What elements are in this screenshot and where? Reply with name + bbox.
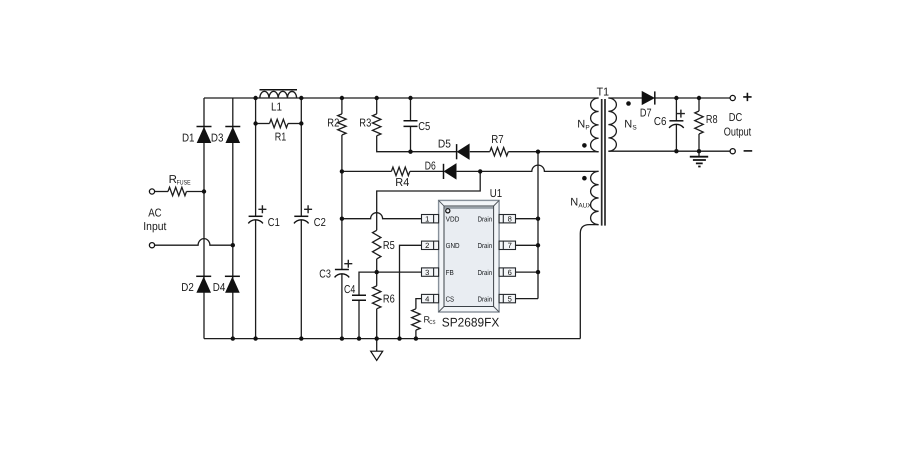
wire GND pin to ground rail (400, 245, 422, 338)
wire C6 bottom lead (675, 125, 677, 152)
wire C1 branch lower (255, 220, 257, 339)
svg-text:C3: C3 (319, 268, 331, 280)
IC U1 body inner face (444, 206, 494, 307)
wire C2 branch lower (300, 220, 302, 339)
junction node (480.2,171.4) (478, 169, 482, 173)
wire D6 node down and over to R5 top (377, 171, 481, 230)
pin 2 box (422, 241, 439, 250)
phase dot NP (582, 143, 587, 148)
wire pin8 lead (516, 218, 539, 220)
pin 5 box (499, 294, 515, 303)
resistor R5 (373, 230, 381, 259)
svg-text:2: 2 (425, 241, 429, 250)
wire NAUX return to ground rail (580, 225, 598, 339)
wire C5 top lead (410, 98, 412, 121)
svg-text:R1: R1 (275, 132, 287, 144)
svg-text:GND: GND (446, 241, 460, 250)
wire R2/C3 branch middle (341, 135, 343, 270)
wire VDD node to R4 (342, 170, 392, 172)
diode D3 (225, 127, 240, 143)
wire pin6 lead (516, 271, 539, 273)
capacitor C1 plates (248, 216, 263, 223)
svg-text:Drain: Drain (478, 241, 493, 250)
svg-text:FB: FB (446, 268, 454, 277)
svg-text:R8: R8 (706, 114, 718, 126)
output minus sign (744, 150, 753, 152)
junction node (538,272.1) (536, 270, 540, 274)
ground symbol (earth ground at output) (690, 151, 708, 166)
wire pin7 lead (516, 244, 539, 246)
wire R2/C3 branch upper (341, 98, 343, 114)
DC output terminal minus (730, 149, 735, 154)
wire R7 to drain node (508, 151, 538, 153)
capacitor C2 polarity plus (304, 205, 312, 213)
svg-text:R5: R5 (383, 240, 395, 252)
junction node (699,151.2) (697, 149, 701, 153)
svg-text:D3: D3 (211, 132, 224, 144)
junction node (255.6,123.5) (253, 121, 257, 125)
svg-text:T1: T1 (597, 86, 609, 98)
svg-text:Drain: Drain (478, 294, 493, 303)
svg-text:C2: C2 (314, 217, 326, 229)
svg-text:Output: Output (724, 126, 752, 138)
wire drain node to NP bottom (538, 151, 599, 153)
wire R3 top lead (376, 98, 378, 114)
AC input terminal bottom (149, 243, 154, 248)
wire R5 to R6 through FB junction (376, 259, 378, 286)
op IC U1 body outer (439, 200, 500, 312)
wire bottom ground rail (204, 338, 580, 340)
junction node (301.3,123.5) (299, 121, 303, 125)
svg-text:R7: R7 (491, 134, 503, 146)
transformer T1 core (602, 99, 605, 226)
junction node (415.9,338.6) (414, 336, 418, 340)
wire RCS bottom lead (415, 330, 417, 339)
svg-text:D1: D1 (182, 132, 195, 144)
IC U1 inner top shade (445, 207, 493, 209)
wire FB line to R5/R6 junction and C4 (359, 272, 422, 295)
wire R3 bottom to snubber line (377, 136, 411, 152)
IC U1 bevel diagonals (439, 200, 500, 312)
wire C2 branch upper (300, 98, 302, 216)
junction node (301.3,98) (299, 96, 303, 100)
transformer T1 auxiliary winding NAUX (591, 171, 599, 224)
wire VDD line with hop over R5 wire (342, 213, 422, 219)
capacitor C3 plates (335, 270, 350, 278)
svg-text:C5: C5 (418, 121, 430, 133)
wire C4 bottom lead (358, 300, 360, 338)
phase dot NS (626, 101, 631, 106)
diode D7 (642, 91, 655, 104)
capacitor C5 plates (404, 121, 418, 127)
resistor RFUSE (168, 187, 186, 195)
junction node (301.3,338.6) (299, 336, 303, 340)
svg-text:U1: U1 (490, 188, 502, 200)
junction node (676.4,151.2) (674, 149, 678, 153)
junction node (676.4,98) (674, 96, 678, 100)
svg-text:7: 7 (508, 241, 512, 250)
IC U1 pin-1 indicator circle (446, 209, 450, 213)
capacitor C1 polarity plus (258, 205, 266, 213)
junction node (538,218.7) (536, 217, 540, 221)
wire D7 to plus terminal (655, 97, 730, 99)
svg-text:R4: R4 (395, 177, 410, 189)
inductor L1 core bar (260, 89, 298, 91)
svg-text:D6: D6 (425, 160, 436, 172)
wire pin5 lead (516, 298, 539, 300)
ground symbol (signal ground triangle) (371, 339, 383, 361)
transformer T1 secondary winding NS (608, 98, 616, 151)
wire right bridge leg (D3/D4) (232, 98, 234, 339)
resistor RCS (412, 309, 420, 330)
wire fuse to bridge node (187, 191, 205, 193)
svg-text:R2: R2 (327, 117, 339, 129)
junction node (341.9,338.6) (340, 336, 344, 340)
pin 3 box (422, 268, 439, 277)
wire AC neutral with hop (155, 239, 233, 246)
wire D6 to node, hop over drain bus, to NAUX top (457, 165, 599, 171)
wire CS pin to RCS (416, 299, 422, 309)
junction node (399.5,338.6) (397, 336, 401, 340)
wire drain bus vertical (537, 152, 539, 299)
diode D5 (457, 144, 470, 159)
resistor R1 (270, 119, 288, 127)
svg-text:CS: CS (446, 294, 455, 303)
junction node (699,98) (697, 96, 701, 100)
svg-text:8: 8 (508, 215, 512, 224)
svg-text:6: 6 (508, 268, 512, 277)
pin 1 box (422, 215, 439, 224)
svg-text:Input: Input (143, 221, 167, 233)
svg-text:R3: R3 (359, 117, 371, 129)
wire R1 left lead (256, 123, 270, 125)
AC input terminal top (149, 189, 154, 194)
junction node (410.5,98) (408, 96, 412, 100)
svg-text:DC: DC (729, 112, 743, 124)
wire AC line to fuse (155, 191, 168, 193)
resistor R8 (695, 111, 703, 134)
output plus sign (743, 93, 751, 101)
junction node (376.7,338.6) (375, 336, 379, 340)
wire R6 bottom lead (376, 309, 378, 339)
wire C6 top lead (675, 98, 677, 121)
svg-text:VDD: VDD (446, 215, 460, 224)
svg-text:C6: C6 (654, 116, 667, 128)
svg-text:D2: D2 (181, 282, 194, 294)
wire R2/C3 branch lower (341, 274, 343, 339)
svg-text:SP2689FX: SP2689FX (442, 315, 500, 329)
wire R8 top lead (698, 98, 700, 111)
svg-text:D7: D7 (640, 107, 652, 119)
diode D1 (197, 127, 212, 143)
junction node (410.5,151.7) (408, 150, 412, 154)
junction node (341.9,98) (340, 96, 344, 100)
wire D5 to R7 (470, 151, 490, 153)
svg-text:R6: R6 (383, 294, 395, 306)
junction node (376.7,98) (375, 96, 379, 100)
wire NS bottom to minus terminal (608, 150, 730, 152)
resistor R4 (391, 167, 409, 175)
capacitor C4 plates (352, 295, 366, 300)
svg-text:C4: C4 (344, 284, 356, 296)
junction node (376.7,272.1) (375, 270, 379, 274)
junction node (341.9,218.7) (340, 217, 344, 221)
junction node (538,245.3) (536, 243, 540, 247)
svg-text:Drain: Drain (478, 268, 493, 277)
junction node (232.8,338.6) (231, 336, 235, 340)
resistor R3 (373, 114, 381, 136)
wire C1 branch upper (255, 98, 257, 216)
capacitor C6 polarity plus (677, 110, 685, 118)
pin 8 box (499, 215, 515, 224)
junction node (255.6,338.6) (253, 336, 257, 340)
svg-text:5: 5 (508, 294, 512, 303)
pin 6 box (499, 268, 515, 277)
wire R8 bottom lead (698, 134, 700, 151)
diode D4 (225, 276, 240, 292)
svg-text:1: 1 (425, 215, 429, 224)
capacitor C6 plates (669, 121, 684, 128)
wire top DC bus rail (204, 97, 599, 99)
wire snubber line C5 to D5 (411, 151, 457, 153)
svg-text:AC: AC (148, 208, 161, 220)
svg-text:3: 3 (425, 268, 429, 277)
resistor R7 (490, 148, 508, 156)
wire R4 to D6 (410, 170, 444, 172)
svg-text:4: 4 (425, 294, 429, 303)
junction node (538,151.7) (536, 150, 540, 154)
resistor R2 (338, 114, 346, 135)
pin 4 box (422, 294, 439, 303)
svg-text:C1: C1 (268, 217, 280, 229)
resistor R6 (373, 286, 381, 309)
junction node (359,338.6) (357, 336, 361, 340)
svg-text:L1: L1 (271, 101, 282, 113)
wire NS top to D7 (608, 97, 642, 99)
capacitor C2 plates (294, 216, 309, 223)
inductor L1 winding (260, 91, 297, 98)
svg-text:D5: D5 (438, 139, 451, 151)
junction node (232.8,245.2) (231, 243, 235, 247)
pin 7 box (499, 241, 515, 250)
wire R1 right lead (288, 123, 301, 125)
junction node (341.9,171.4) (340, 169, 344, 173)
DC output terminal plus (730, 95, 735, 100)
junction node (255.6,98) (253, 96, 257, 100)
svg-text:D4: D4 (213, 282, 226, 294)
phase dot NAUX (582, 176, 587, 181)
capacitor C3 polarity plus (344, 260, 352, 268)
diode D2 (196, 276, 211, 292)
transformer T1 primary winding NP (591, 98, 599, 152)
junction node (204,191.5) (202, 189, 206, 193)
wire C5 bottom lead (410, 126, 412, 151)
wire left bridge leg (D1/D2) (203, 98, 205, 339)
diode D6 (444, 164, 457, 179)
svg-text:Drain: Drain (478, 215, 493, 224)
